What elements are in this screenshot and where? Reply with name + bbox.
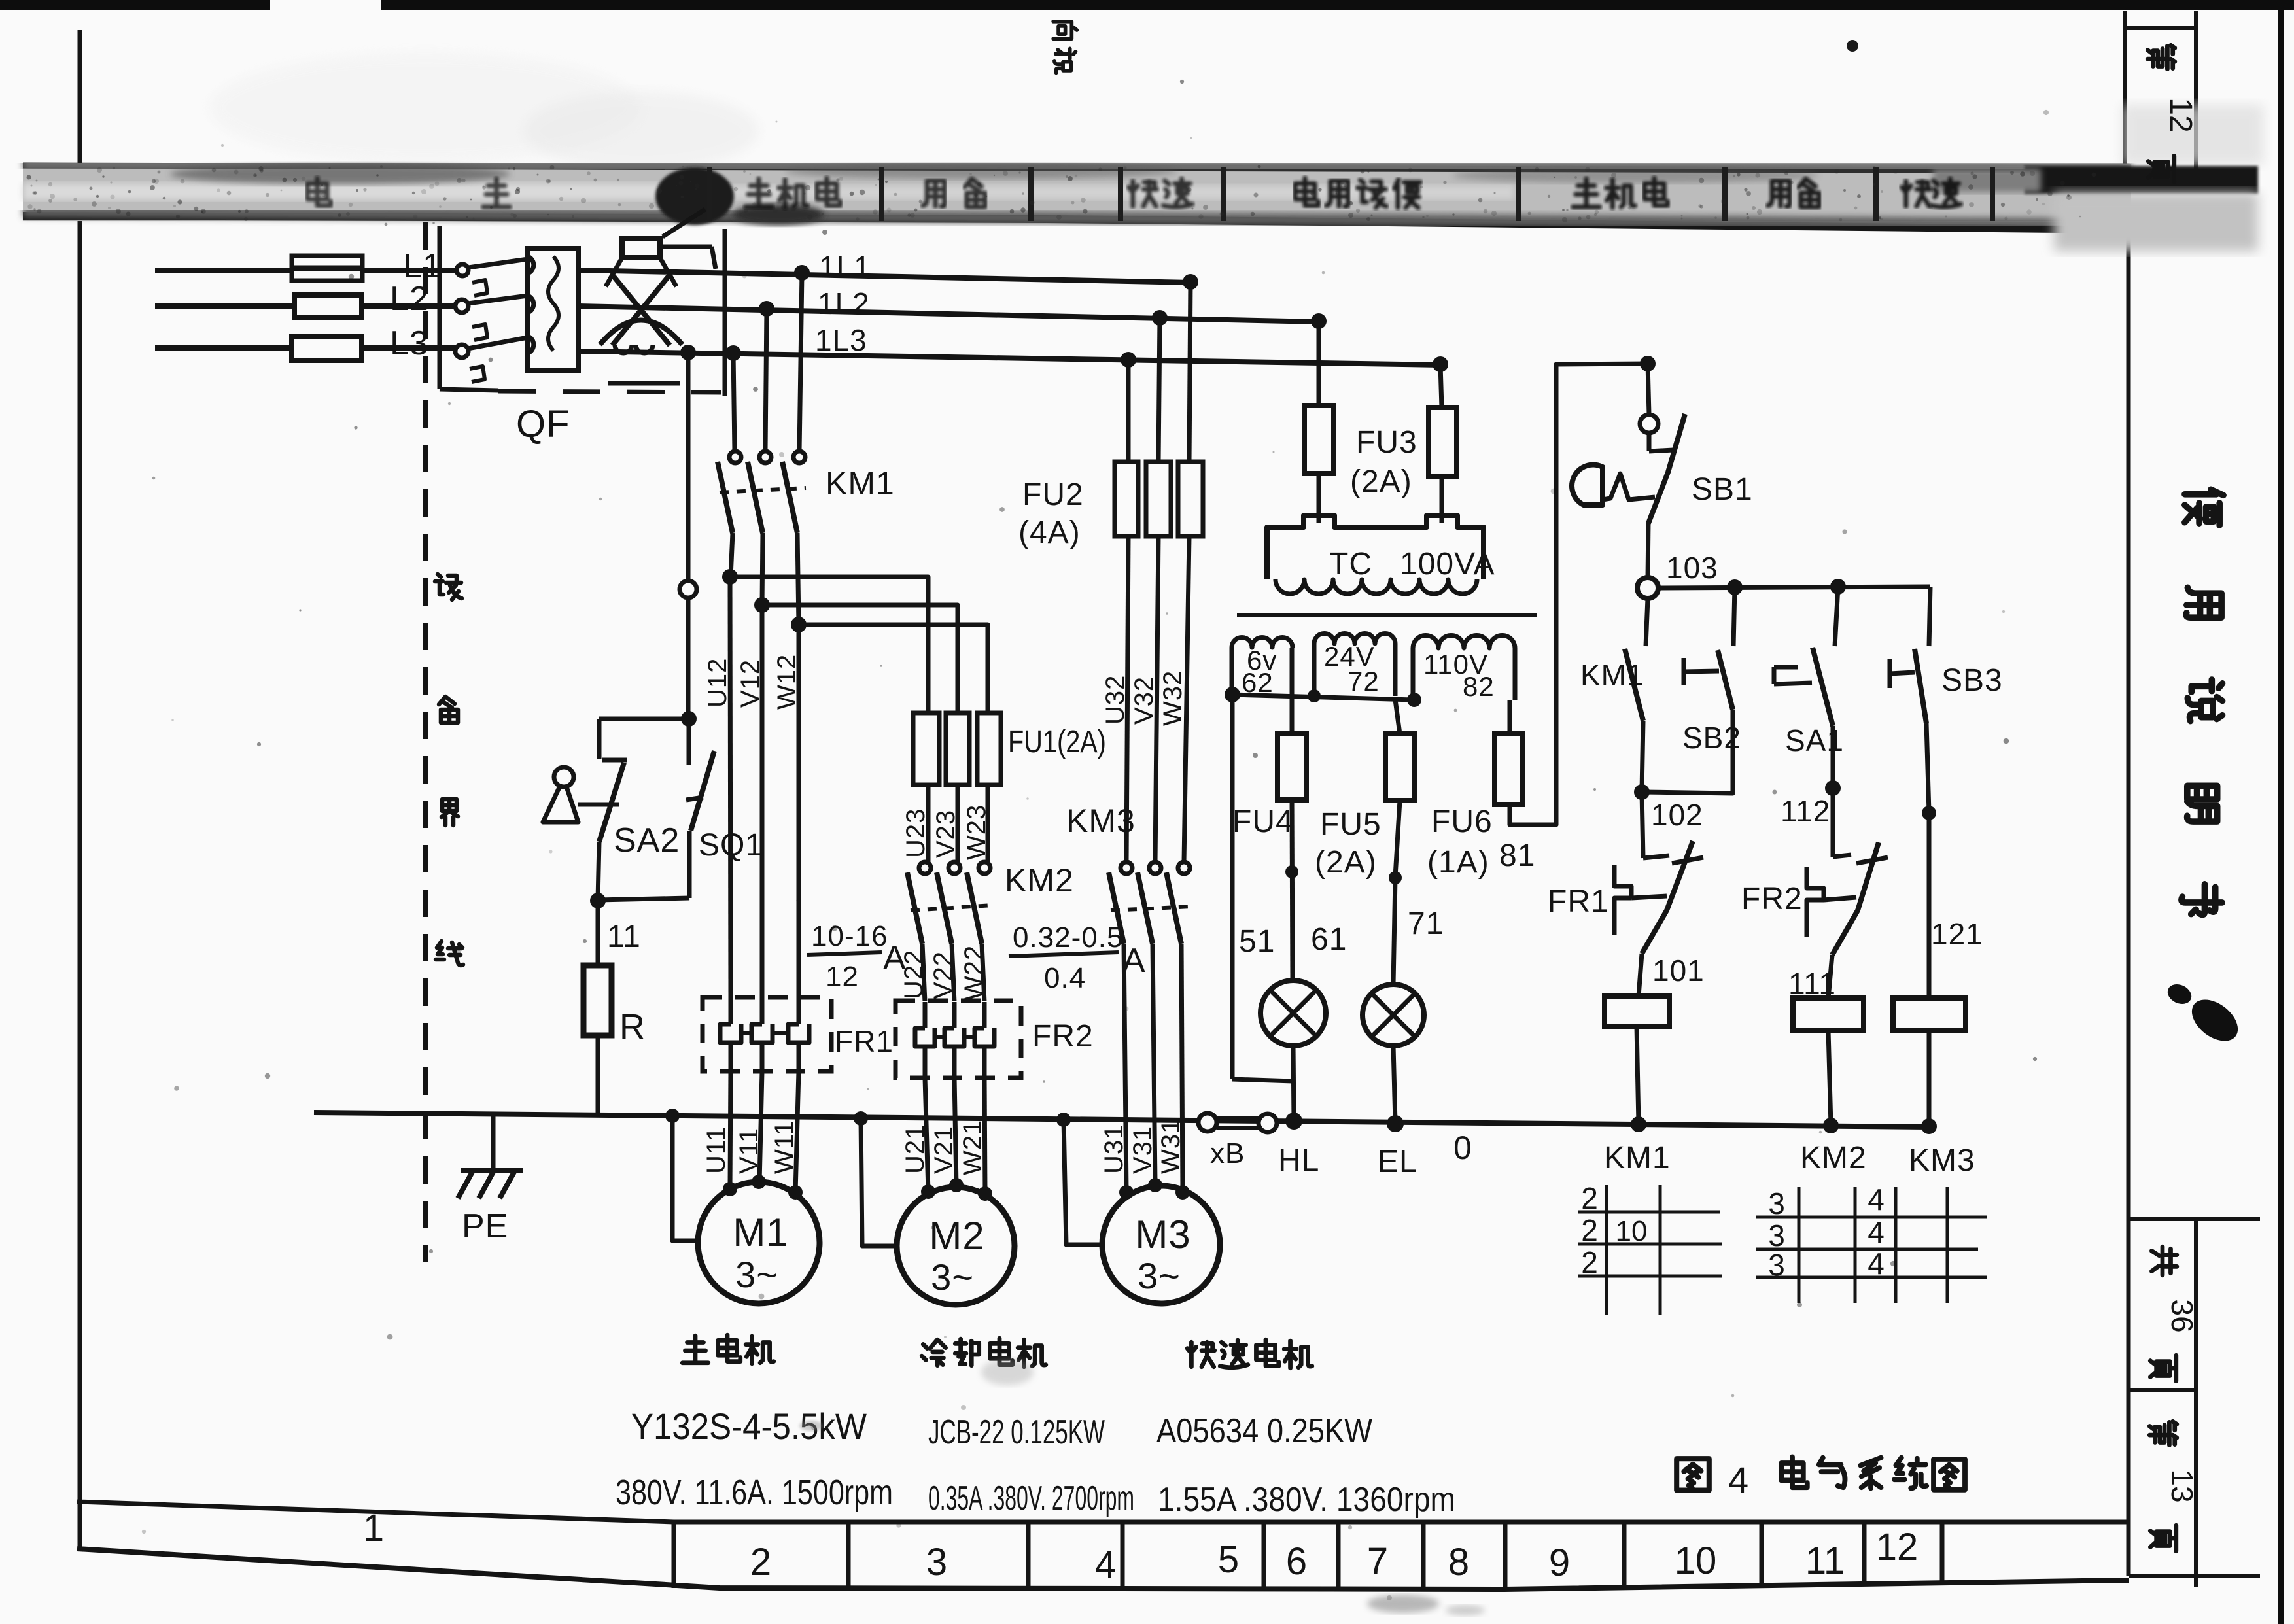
fuse L3 <box>292 336 362 360</box>
KM1 contact table <box>1578 1181 1722 1315</box>
svg-text:81: 81 <box>1499 838 1535 873</box>
svg-text:(1A): (1A) <box>1427 845 1489 880</box>
thermal relay FR2 heaters <box>895 1001 1094 1078</box>
svg-text:51: 51 <box>1239 924 1275 959</box>
contactor KM1 main contacts <box>718 273 895 625</box>
svg-text:4: 4 <box>1868 1215 1885 1249</box>
wire 103 bus <box>1658 579 1930 595</box>
title 图4 电气系统图 <box>1677 1457 1965 1500</box>
svg-text:121: 121 <box>1931 917 1983 951</box>
wire W22 <box>960 945 988 1001</box>
wires KM3 to M3 <box>1124 944 1183 1190</box>
wire from 1L3 to SQ1/SA2 <box>680 353 697 727</box>
caption 冷却电机 <box>922 1338 1046 1367</box>
svg-text:1L3: 1L3 <box>815 323 867 357</box>
svg-text:2: 2 <box>1581 1181 1598 1215</box>
svg-text:FU5: FU5 <box>1320 807 1382 842</box>
lamp HL <box>1260 980 1326 1178</box>
svg-text:(4A): (4A) <box>1018 515 1081 550</box>
svg-text:4: 4 <box>1868 1247 1885 1281</box>
svg-text:(2A): (2A) <box>1315 845 1377 880</box>
svg-text:KM1: KM1 <box>825 465 895 502</box>
svg-text:U21: U21 <box>901 1124 930 1174</box>
pushbutton SB2 <box>1643 587 1741 793</box>
equipment boundary line 设备界线 <box>425 222 463 1262</box>
wires FR1 to M1 (U11 V11 W11) <box>702 1071 799 1192</box>
motor M1 <box>665 1109 820 1304</box>
svg-text:2: 2 <box>1581 1245 1598 1279</box>
wire 71 <box>1389 801 1444 984</box>
transformer TC 110V secondary <box>1413 636 1515 702</box>
spec 0.35A 380V 2700rpm <box>928 1479 1134 1517</box>
svg-text:7: 7 <box>1367 1540 1388 1583</box>
fuse L1 <box>292 256 362 281</box>
svg-text:FR1: FR1 <box>1548 884 1609 919</box>
svg-text:3~: 3~ <box>1138 1255 1181 1296</box>
svg-text:0.35A .380V. 2700rpm: 0.35A .380V. 2700rpm <box>928 1479 1134 1517</box>
svg-text:5: 5 <box>1218 1538 1239 1581</box>
transformer TC primary <box>1237 474 1537 615</box>
svg-text:SA2: SA2 <box>614 821 680 859</box>
wire 0 bus <box>314 1113 1929 1166</box>
ground PE <box>458 1114 523 1245</box>
auxiliary contact KM1 <box>1580 598 1648 791</box>
junction EL on 0 bus <box>1387 1115 1404 1132</box>
spec 1.55A 380V 1360rpm <box>1158 1481 1455 1519</box>
svg-text:KM3: KM3 <box>1909 1143 1975 1178</box>
svg-text:1L2: 1L2 <box>818 286 870 320</box>
svg-text:U31: U31 <box>1100 1124 1128 1174</box>
svg-text:R: R <box>619 1007 646 1046</box>
svg-text:A05634 0.25KW: A05634 0.25KW <box>1156 1412 1372 1450</box>
svg-text:SA1: SA1 <box>1785 723 1844 757</box>
svg-text:10: 10 <box>1675 1540 1717 1582</box>
svg-text:4: 4 <box>1728 1459 1748 1500</box>
svg-text:FU2: FU2 <box>1022 477 1084 512</box>
wire U32 <box>1101 536 1130 862</box>
svg-text:9: 9 <box>1549 1542 1570 1584</box>
svg-text:W12: W12 <box>773 654 801 710</box>
svg-text:380V. 11.6A. 1500rpm: 380V. 11.6A. 1500rpm <box>616 1473 893 1512</box>
svg-text:FU3: FU3 <box>1356 425 1417 460</box>
KM2 KM3 contact table <box>1756 1183 1987 1303</box>
label FU1 <box>1008 725 1106 759</box>
node 11 <box>590 893 641 954</box>
svg-text:EL: EL <box>1378 1145 1417 1179</box>
svg-text:W32: W32 <box>1158 670 1187 726</box>
svg-text:4: 4 <box>1095 1544 1116 1586</box>
coil KM3 <box>1893 998 1975 1178</box>
svg-text:0.4: 0.4 <box>1044 962 1086 994</box>
svg-text:KM1: KM1 <box>1580 658 1644 692</box>
wire W12 <box>773 617 807 997</box>
svg-text:M2: M2 <box>929 1214 984 1258</box>
transformer TC 24V secondary <box>1314 633 1395 697</box>
wire 1L3 tap to FU3 <box>1440 365 1442 407</box>
svg-text:11: 11 <box>1805 1540 1845 1582</box>
transformer TC 6V secondary <box>1232 637 1293 698</box>
FR2 setting 0.32-0.5/0.4 A <box>1009 922 1146 994</box>
wire W32 <box>1158 536 1189 862</box>
wire W23 <box>962 785 991 862</box>
wire L3 incoming <box>155 345 457 351</box>
wire U23 <box>901 785 930 862</box>
svg-text:M1: M1 <box>733 1211 788 1254</box>
svg-text:U32: U32 <box>1101 675 1130 725</box>
svg-text:U12: U12 <box>703 658 732 708</box>
svg-text:3~: 3~ <box>931 1256 974 1298</box>
fuse FU6 (1A) <box>1427 700 1522 880</box>
wires FR2 to M2 (U21 V21 W21) <box>901 1078 987 1194</box>
svg-text:12: 12 <box>1876 1526 1919 1568</box>
wire 61 <box>1285 800 1347 980</box>
wire V23 <box>931 785 960 862</box>
wire L1 incoming <box>155 268 458 273</box>
node 102 <box>1634 784 1703 832</box>
svg-text:U23: U23 <box>901 808 930 858</box>
svg-text:V22: V22 <box>929 951 958 999</box>
svg-text:V23: V23 <box>931 810 960 858</box>
resistor R <box>583 901 646 1113</box>
svg-text:W11: W11 <box>770 1120 799 1174</box>
svg-text:1: 1 <box>363 1507 384 1549</box>
svg-text:0.32-0.5: 0.32-0.5 <box>1013 922 1123 954</box>
svg-text:KM1: KM1 <box>1604 1141 1671 1175</box>
svg-text:61: 61 <box>1311 922 1347 957</box>
svg-text:V31: V31 <box>1128 1126 1157 1174</box>
svg-text:112: 112 <box>1781 794 1830 828</box>
node L1 <box>403 247 442 285</box>
wire L2 incoming <box>155 303 457 309</box>
svg-text:4: 4 <box>1868 1183 1885 1217</box>
svg-text:1L1: 1L1 <box>819 250 871 284</box>
wire U22 <box>899 950 928 999</box>
svg-text:V11: V11 <box>735 1128 763 1174</box>
svg-text:U11: U11 <box>702 1126 731 1174</box>
fuse L2 <box>294 295 362 318</box>
svg-text:3~: 3~ <box>735 1254 778 1295</box>
svg-text:TC: TC <box>1329 547 1372 581</box>
svg-text:FR1: FR1 <box>835 1024 894 1058</box>
svg-text:10: 10 <box>1616 1215 1648 1247</box>
fuse FU4 <box>1232 695 1306 839</box>
svg-text:1.55A .380V. 1360rpm: 1.55A .380V. 1360rpm <box>1158 1481 1455 1519</box>
wire 1L2 <box>578 286 1327 329</box>
wire 1L3 <box>578 323 1448 372</box>
svg-text:W31: W31 <box>1156 1118 1185 1174</box>
svg-text:V12: V12 <box>736 659 765 708</box>
svg-text:8: 8 <box>1448 1541 1469 1583</box>
svg-text:KM2: KM2 <box>1005 862 1074 899</box>
node 103 <box>1637 551 1718 598</box>
contactor KM2 main contacts <box>907 862 1074 1002</box>
svg-text:KM3: KM3 <box>1066 803 1136 839</box>
FR1 setting 10-16/12 A <box>807 920 907 993</box>
node L3 <box>390 324 429 362</box>
svg-text:102: 102 <box>1651 798 1703 832</box>
svg-text:72: 72 <box>1347 666 1380 697</box>
motor M2 <box>854 1111 1015 1305</box>
svg-text:FR2: FR2 <box>1741 882 1803 916</box>
svg-text:13: 13 <box>2165 1469 2199 1502</box>
svg-text:FU6: FU6 <box>1431 804 1493 839</box>
svg-text:3: 3 <box>1768 1186 1785 1220</box>
svg-text:71: 71 <box>1408 907 1444 941</box>
svg-text:101: 101 <box>1652 954 1705 988</box>
selector switch SA1 <box>1774 587 1844 787</box>
junction HL on 0 bus <box>1285 1113 1302 1130</box>
svg-text:(2A): (2A) <box>1350 464 1412 499</box>
svg-text:FU1(2A): FU1(2A) <box>1008 725 1106 759</box>
motor M3 <box>1056 1113 1220 1304</box>
svg-text:0: 0 <box>1453 1130 1472 1166</box>
thermal contact FR2 (NC) <box>1741 788 1888 955</box>
node 112 <box>1781 780 1841 828</box>
fuse FU1 (2A) <box>913 713 1001 785</box>
spec A05634 0.25KW <box>1156 1412 1372 1450</box>
svg-text:6: 6 <box>1286 1540 1307 1583</box>
svg-text:W21: W21 <box>958 1120 987 1175</box>
svg-text:V21: V21 <box>930 1126 958 1174</box>
svg-text:100VA: 100VA <box>1400 547 1495 581</box>
svg-text:2: 2 <box>750 1541 771 1583</box>
wire U12 <box>703 569 738 997</box>
node 121 <box>1922 806 1983 998</box>
switch SA2 <box>543 719 689 900</box>
wire V22 <box>929 951 958 999</box>
circuit breaker QF <box>440 209 725 445</box>
svg-text:FR2: FR2 <box>1032 1019 1094 1054</box>
wire labels U31 V31 W31 <box>1100 1118 1185 1174</box>
svg-text:QF: QF <box>516 403 570 445</box>
wire 1L1 <box>578 250 1198 290</box>
svg-text:36: 36 <box>2165 1299 2199 1332</box>
secondary common bus 62-72 <box>1225 687 1421 707</box>
caption 主电机 <box>682 1335 774 1364</box>
thermal relay FR1 heaters <box>703 997 894 1071</box>
svg-text:SB3: SB3 <box>1941 663 2003 698</box>
svg-text:10-16: 10-16 <box>811 920 888 952</box>
fuse FU5 (2A) <box>1315 700 1414 880</box>
svg-text:11: 11 <box>607 920 641 954</box>
coil KM1 <box>1604 996 1671 1175</box>
fuse FU2 (4A) <box>1018 282 1203 550</box>
svg-text:A: A <box>883 939 907 977</box>
spec 380V 11.6A 1500rpm <box>616 1473 893 1512</box>
pushbutton SB3 <box>1890 587 2003 812</box>
svg-text:FU4: FU4 <box>1232 804 1294 839</box>
fuse FU3 (2A) <box>1304 406 1457 499</box>
node L2 <box>390 280 429 318</box>
svg-text:103: 103 <box>1666 551 1718 585</box>
coil KM2 <box>1793 998 1867 1175</box>
svg-text:Y132S-4-5.5kW: Y132S-4-5.5kW <box>631 1406 867 1447</box>
wire V32 <box>1130 536 1158 862</box>
thermal contact FR1 (NC) <box>1548 792 1703 954</box>
lamp EL <box>1363 984 1424 1179</box>
wire V12 <box>736 597 770 997</box>
svg-text:W23: W23 <box>962 804 991 860</box>
svg-text:A: A <box>1122 942 1146 980</box>
svg-text:JCB-22 0.125KW: JCB-22 0.125KW <box>928 1413 1105 1451</box>
svg-text:3: 3 <box>926 1541 947 1583</box>
svg-text:PE: PE <box>462 1207 508 1245</box>
svg-text:HL: HL <box>1278 1143 1319 1178</box>
svg-text:SB2: SB2 <box>1682 721 1741 755</box>
switch SQ1 <box>598 719 763 900</box>
svg-text:12: 12 <box>2163 97 2198 132</box>
spec Y132S-4-5.5kW <box>631 1406 867 1447</box>
svg-text:KM2: KM2 <box>1800 1141 1867 1175</box>
svg-text:12: 12 <box>825 961 859 993</box>
svg-text:2: 2 <box>1581 1213 1598 1247</box>
node 111 <box>1788 955 1836 1001</box>
svg-text:V32: V32 <box>1130 676 1158 725</box>
branch wires to FU1 <box>730 577 988 713</box>
connector XB <box>1198 1113 1277 1169</box>
svg-text:M3: M3 <box>1135 1213 1190 1256</box>
pushbutton SB1 (emergency stop) <box>1572 356 1753 578</box>
contactor KM3 main contacts <box>1066 803 1192 944</box>
svg-text:SQ1: SQ1 <box>699 828 763 863</box>
caption 快速电机 <box>1187 1339 1312 1368</box>
wire 1L2 tap to FU3 <box>1317 322 1321 406</box>
svg-text:W22: W22 <box>960 945 988 1001</box>
svg-text:xB: xB <box>1210 1137 1245 1169</box>
svg-text:3: 3 <box>1768 1248 1785 1282</box>
svg-text:82: 82 <box>1463 671 1495 702</box>
wire 51 <box>1232 695 1293 1081</box>
svg-text:SB1: SB1 <box>1692 472 1753 507</box>
spec JCB-22 0.125KW <box>928 1413 1105 1451</box>
wire 81 <box>1499 364 1648 873</box>
node 101 <box>1639 954 1705 996</box>
